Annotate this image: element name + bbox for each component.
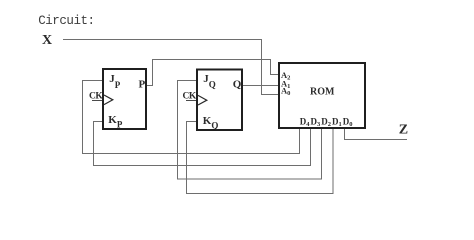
svg-text:Z: Z [399,123,408,138]
svg-text:CK: CK [89,91,103,101]
svg-text:CK: CK [183,91,197,101]
svg-text:ROM: ROM [310,87,335,98]
svg-text:X: X [42,33,52,48]
svg-text:Q: Q [233,79,242,91]
svg-text:Circuit:: Circuit: [38,14,94,28]
svg-text:P: P [139,79,146,91]
